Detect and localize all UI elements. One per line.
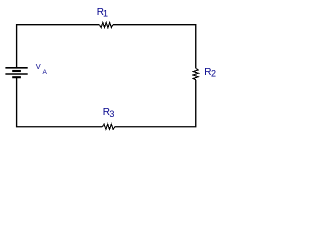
resistor R1 bbox=[99, 23, 113, 28]
svg-text:V: V bbox=[36, 62, 41, 71]
wire top-left segment with corner (battery + to R1) bbox=[17, 25, 100, 68]
resistor R3 bbox=[102, 124, 115, 129]
svg-text:3: 3 bbox=[109, 109, 114, 119]
svg-text:2: 2 bbox=[211, 69, 216, 79]
svg-text:A: A bbox=[43, 69, 48, 76]
battery VA bottom short thick plate (-) bbox=[12, 76, 21, 78]
wire bottom-right segment with corner (R2 to R3) bbox=[115, 80, 196, 127]
battery VA first short thick plate (-) bbox=[12, 70, 21, 72]
battery VA second long plate (+) bbox=[5, 73, 27, 75]
resistor R2 bbox=[193, 68, 198, 80]
svg-text:1: 1 bbox=[103, 9, 108, 19]
wire top-right segment with corner (R1 to R2) bbox=[113, 25, 196, 68]
battery VA top long plate (+) bbox=[5, 67, 27, 69]
wire bottom-left segment with corner (R3 to battery -) bbox=[17, 78, 103, 127]
